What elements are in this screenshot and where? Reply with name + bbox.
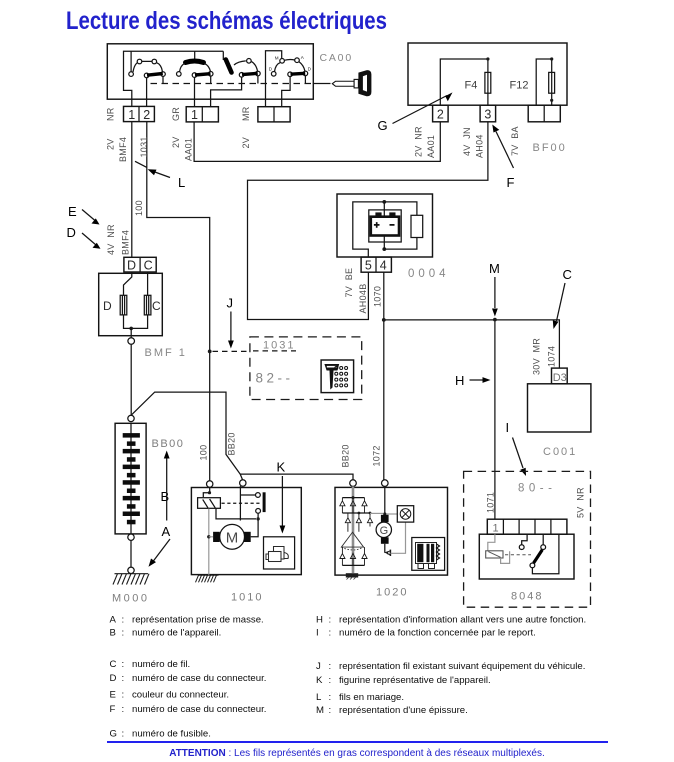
wire 4V AH04 route from pin3 to battery pin5 [248,122,488,320]
transistor (regulator) [385,550,391,556]
stator dotted arc [341,547,363,550]
wire mid bus to G node (grey) [370,512,383,514]
junction dot F12 bottom [550,99,553,102]
arrow G [378,92,453,133]
svg-text:NR: NR [106,107,116,121]
junction dot 1010 [256,517,259,520]
relay box 8048 [479,534,574,579]
svg-text:M: M [275,55,279,60]
svg-text:BB20: BB20 [341,444,351,467]
switch S4 position letters M A D D [269,55,312,72]
svg-text:L:fils en mariage.: L:fils en mariage. [316,692,404,703]
diode bridge bottom bus [342,564,364,566]
arrow L [148,169,186,190]
svg-text:J:représentation fil existant: J:représentation fil existant suivant éq… [316,661,585,672]
svg-text:AA01: AA01 [426,135,436,158]
svg-text:H:représentation d'information: H:représentation d'information allant ve… [316,614,586,625]
svg-text:F: F [507,175,515,190]
stator winding triangle [341,532,363,547]
contact bar 1010 [263,492,266,512]
switch S3 bus drop [222,51,224,60]
wire BB20 down inside 1010 [239,486,241,520]
svg-text:4: 4 [380,259,387,273]
svg-text:L: L [178,175,185,190]
connector BF00 pin box 3 [480,105,496,122]
svg-text:BMF4: BMF4 [118,137,128,162]
battery BB00 box [115,423,146,534]
svg-text:82--: 82-- [256,371,294,386]
terminal circle BMF1 [128,338,135,345]
starter figurine box [264,537,295,569]
resistor (0004 internal) [411,215,423,237]
svg-text:1020: 1020 [376,587,408,599]
wires fuse outputs joined [124,315,148,329]
arrow B [161,451,170,521]
svg-text:G: G [378,118,388,133]
svg-text:Lecture des schémas électrique: Lecture des schémas électriques [66,7,387,35]
alternator block 1020 [335,487,448,575]
svg-text:1: 1 [493,523,499,535]
svg-text:C:numéro de fil.: C:numéro de fil. [110,659,191,670]
svg-text:100: 100 [199,445,209,461]
wire to upper contact [240,494,255,496]
svg-text:I:numéro de la fonction concer: I:numéro de la fonction concernée par le… [316,628,536,639]
switch S4 stub to mech link [304,76,306,84]
wire 1072 to G [384,486,386,514]
svg-text:M:représentation d'une épissur: M:représentation d'une épissure. [316,705,468,716]
connector MR pin box (empty) [258,107,290,122]
svg-text:K:figurine représentative de l: K:figurine représentative de l'appareil. [316,675,491,686]
arrow A [149,524,171,567]
battery block 0004 box [337,194,433,257]
terminal circle BB20 at 1010 [240,480,246,486]
wire pin1-to-bus inside CA00 [124,51,224,106]
terminal circle BB20 at 1020 [350,480,357,487]
svg-text:F:numéro de case du connecteur: F:numéro de case du connecteur. [110,704,267,715]
relay coil 8048 [486,551,503,558]
svg-text:K: K [277,460,286,475]
wire cell4 to contact b [542,534,544,544]
wire BMF4 from NR pin1 down to BMF1 connector [131,122,133,258]
wire 1070/1072 from pin4 through splice to 1020 [383,272,385,480]
wire transistor to lamp (grey) [390,522,405,553]
svg-text:2: 2 [143,108,150,122]
diode row 3 [340,547,367,565]
switch S3 contact circles [239,59,260,78]
svg-text:3: 3 [484,108,491,122]
svg-text:2V NR: 2V NR [414,126,424,157]
switch S4 sub-box wire [266,51,282,107]
switch S3 slanted wiper [226,60,232,73]
junction dots mid bus [358,512,372,515]
svg-text:M: M [226,529,239,546]
svg-text:4V JN: 4V JN [462,127,472,156]
arrow I [506,420,527,476]
splice line to C001 [384,320,560,368]
svg-text:100: 100 [134,200,144,216]
wire F4 to pin3 [487,93,489,105]
junction dot F12 top [550,57,553,60]
junction dot coil top [208,491,211,494]
fuse F12 [549,72,555,93]
battery BB00 terminal circle bottom [128,534,134,540]
arrow C [553,267,572,329]
wire loop left inside 0004 [353,202,385,257]
svg-text:8048: 8048 [511,591,543,603]
svg-text:C: C [152,299,161,313]
svg-text:J: J [227,296,234,311]
svg-text:D: D [127,258,136,272]
arrow J [227,296,234,349]
svg-text:E: E [68,204,77,219]
connector 0004 pin box 5|4 [361,257,391,272]
switch S3 stub to mech link [257,76,259,84]
junction dot F4 top [486,57,489,60]
terminal circle wire100 at 1010 [207,481,213,487]
switch S3 arcs [234,61,258,71]
junction dot wire100 / J dashed [208,350,212,354]
junction dot bridge top [352,496,355,499]
arrow E [68,204,100,225]
legend column left [110,614,267,739]
arrow F [492,125,514,191]
svg-text:BMF4: BMF4 [121,230,131,255]
diagnostic socket icon box [321,360,354,393]
svg-text:7V BE: 7V BE [344,268,354,298]
arrow M [489,261,500,317]
svg-text:2V: 2V [106,138,116,150]
contact circles 8048 [519,545,545,568]
diode bridge top bus [342,497,364,499]
wire BB20 branch (diagonal + route to 1010/1020) [132,392,353,480]
svg-text:D:numéro de case du connecteur: D:numéro de case du connecteur. [110,673,267,684]
wire coil to ground (thin) [208,509,210,576]
svg-text:1010: 1010 [231,592,263,604]
wire C-pin to fuse C [147,272,149,295]
wire S1 to pin 2 [146,78,148,107]
wire 1031 from NR pin2 down then right (becomes 100) [147,122,210,481]
diagnostic socket icon [324,364,347,390]
connector block CA00 (ignition switch) [107,44,313,99]
wire coil bottom to contact line [216,509,256,519]
wire BMF1 to BB00 [130,344,132,415]
connector NR pin box 1|2 [124,106,155,122]
connector BMF1 pin box D|C [124,257,156,272]
starter block 1010 [191,488,301,575]
junction dot G top [383,512,386,515]
svg-text:5: 5 [365,259,372,273]
warning lamp symbol [400,509,411,520]
switch S2 bus drop to wiper [194,51,196,59]
svg-text:ATTENTION : Les fils représent: ATTENTION : Les fils représentés en gras… [169,748,545,759]
svg-text:MR: MR [241,106,251,121]
relay coil 1010 [198,498,221,509]
arrow K [277,460,286,534]
wire pivot to cell5 [532,534,559,574]
wire D-pin to fuse D [124,272,132,295]
upper contact circle 1010 [256,493,261,498]
wire pin2 to fuse F4 top [440,59,488,105]
svg-text:1070: 1070 [373,286,383,307]
dashed link 8048 [505,554,531,556]
arrow H [455,373,491,388]
wire S3 to GR pin 2 (jog) [211,77,242,107]
svg-text:D: D [67,225,76,240]
svg-text:BF00: BF00 [533,142,567,154]
svg-text:1074: 1074 [547,346,557,367]
dashed function block 8048 [464,471,591,607]
svg-text:F12: F12 [510,80,529,92]
wire loop right / internal resistor branch [384,202,417,249]
switch S2 stub to mech link [210,76,212,83]
dashed wire J to block 1031 [213,350,297,353]
wire F12 loop [536,59,552,105]
fuse F4 [485,72,491,93]
wire pin1 to coil 8048 [488,534,495,551]
switch S1 stub to mech link [162,76,164,83]
wire F12 bottom [551,93,553,105]
diode bridge mid bus [342,512,370,514]
switch S2 wiper bar [195,74,211,75]
wire lower contact to motor [251,513,258,537]
inner box around battery icon [369,210,401,242]
wire coil bottom 8048 [501,551,510,563]
svg-text:1072: 1072 [372,445,382,466]
dashed link coil-contact 1010 [222,502,261,504]
svg-text:G: G [380,525,389,537]
connector D3 pin box [552,368,568,384]
fuse D [120,295,127,315]
svg-text:BB00: BB00 [152,438,185,450]
junction dot battery bottom [382,247,386,251]
starter figurine icon [266,547,288,562]
svg-text:H: H [455,373,464,388]
appliance box C001 [528,384,591,432]
svg-text:C: C [144,258,153,272]
connector GR pin box 1| [186,107,218,123]
switch S1 contact circles [129,59,166,77]
svg-text:7V BA: 7V BA [510,126,520,156]
wire 100 into relay coil [203,487,209,497]
battery icon [371,212,399,235]
ground terminal circle M000 [128,567,134,573]
wire ground-wire to motor left terminal [209,536,213,538]
svg-text:4V NR: 4V NR [106,224,116,255]
warning lamp box [397,506,413,522]
terminal circle 1072 at 1020 [382,480,389,487]
svg-text:D: D [103,299,112,313]
svg-text:80--: 80-- [518,483,556,495]
connector BF00 pin box 2 [433,105,449,122]
mechanical link dash-dot line to key [151,83,313,85]
svg-text:30V MR: 30V MR [532,338,542,375]
switch S4 wiper bar [291,72,306,76]
junction dot BMF1 output [129,327,133,331]
fuse unit BMF1 box [99,273,163,335]
junction dot motor left [207,535,210,538]
ground symbol 1010 [196,575,219,582]
junction dot battery top [382,200,386,204]
generator G [376,515,391,544]
lower contact circle 1010 [256,509,261,514]
svg-text:1: 1 [191,108,198,122]
svg-text:AH04B: AH04B [358,283,368,313]
ground symbol M000 [113,574,149,585]
svg-text:C001: C001 [543,446,577,458]
svg-text:2: 2 [437,108,444,122]
bold wire BB20 inside 1020 (multiplex/gras) [352,486,355,573]
svg-text:A: A [162,524,171,539]
connector BF00 double box [528,105,560,122]
switch S1 contacts arc [133,61,162,72]
junction dot splice at 1071 [493,318,497,322]
contact blade 8048 [534,550,543,563]
battery BB00 cell plates [123,433,140,524]
svg-text:CA00: CA00 [320,52,353,64]
switch S4 contact circles [271,58,307,77]
svg-text:BB20: BB20 [227,432,237,455]
switch S1 wiper bar [147,74,163,76]
marriage slash L [135,161,147,167]
svg-text:BMF 1: BMF 1 [145,347,187,359]
wire cell3 to contact a [522,534,527,544]
svg-text:M000: M000 [112,593,150,605]
svg-text:AA01: AA01 [184,138,194,161]
svg-text:1031: 1031 [139,136,149,157]
svg-text:2V: 2V [241,137,251,149]
svg-text:0004: 0004 [408,268,450,280]
wire BB00 to ground [130,540,132,567]
svg-text:2V: 2V [171,136,181,148]
ignition key symbol [332,70,371,96]
svg-text:A:représentation prise de mass: A:représentation prise de masse. [110,614,264,625]
switch S2 contact circles [177,72,214,78]
junction dot splice at 1070 [382,318,386,322]
svg-text:F4: F4 [465,80,478,92]
wire S2 to GR pin 1 [194,77,196,106]
switch S2 arcs [180,64,211,72]
svg-text:C: C [563,267,572,282]
switch S3 wiper bar [242,73,258,74]
fuse box BF00 [408,43,567,105]
dashed block 1031 (diagnostic) [250,337,362,400]
svg-text:1071: 1071 [486,492,496,513]
wire 2V AA01 from GR pin1 to BF00 pin2 [194,122,440,162]
svg-text:GR: GR [171,107,181,121]
svg-text:1031: 1031 [263,340,295,352]
ground symbol 1020 [346,573,358,579]
wire bus drop to switch S1 left contact [130,51,132,72]
wire 1071 from splice to 8048 [494,322,496,520]
svg-text:I: I [506,420,510,435]
battery BB00 terminal circle top [128,415,134,421]
wire S4 to MR pin 2 (jog) [282,77,290,107]
connector strip 8048 [487,519,567,534]
svg-text:B: B [161,489,170,504]
wire G to transistor [384,544,386,553]
svg-text:M: M [489,261,500,276]
switch S2 wiper bridge (black arc) [186,61,204,63]
svg-text:1: 1 [128,108,135,122]
svg-text:AH04: AH04 [475,134,485,158]
fuse C [144,295,151,315]
arrow D [67,225,101,249]
svg-text:D3: D3 [553,372,567,384]
wire battery top stub [383,202,385,217]
wire G node to lamp (grey) [387,513,398,515]
legend column right [316,614,586,716]
alternator figurine box [412,538,445,571]
wire to output terminal circle [130,328,132,337]
svg-text:5V NR: 5V NR [576,487,586,518]
alternator figurine icon [416,543,440,569]
diode row 1 [340,498,367,513]
wire battery bottom stub [383,236,385,249]
attention rule [107,741,608,743]
diode row 2 [345,513,372,532]
battery BB00 centre wire [130,423,132,534]
motor M 1010 [213,524,251,549]
switch S4 arcs [275,59,305,71]
